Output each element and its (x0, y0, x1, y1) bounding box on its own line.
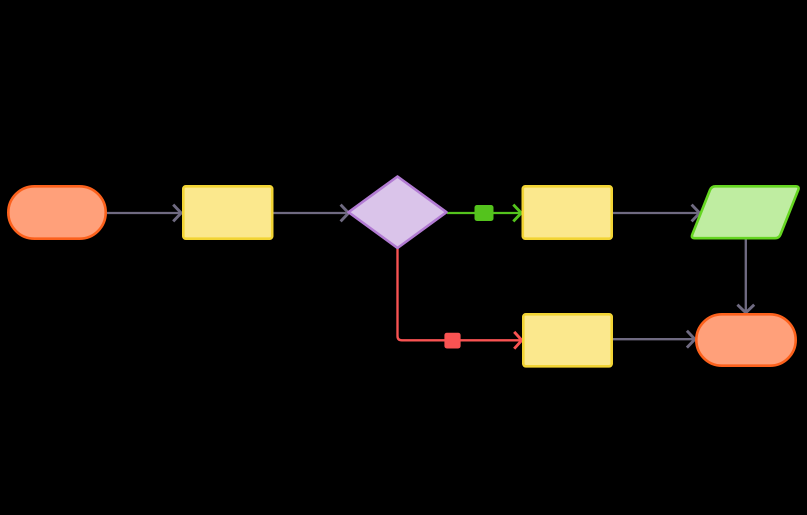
wire C to F (red, bent) (398, 245, 522, 349)
wire E to G (down) (737, 239, 754, 313)
label green square (475, 205, 494, 221)
node B process rect (183, 186, 272, 238)
node C decision diamond (349, 177, 447, 249)
node D process rect (523, 186, 612, 238)
node E parallelogram (692, 186, 799, 238)
label red square (444, 333, 460, 349)
node F process rect (523, 314, 611, 366)
wire B to C (274, 205, 349, 222)
node G end stadium (696, 314, 795, 365)
wire C to D (green) (447, 205, 521, 222)
wire A to B (107, 205, 181, 222)
wire F to G (613, 331, 695, 348)
node A start stadium (8, 186, 105, 238)
wire D to E (613, 205, 700, 222)
